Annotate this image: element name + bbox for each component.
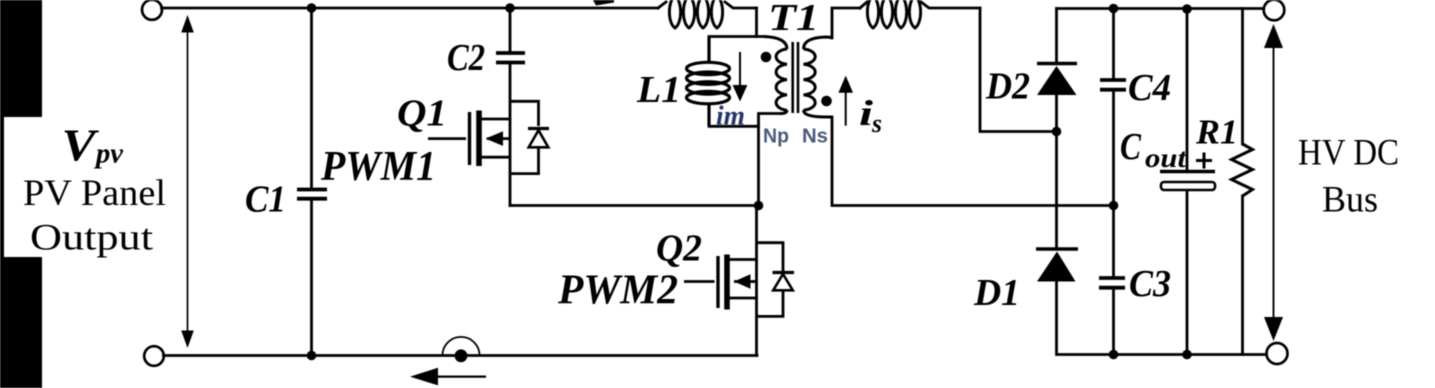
inductor leakage coil secondary (series coil 2) (867, 0, 920, 28)
svg-text:Q1: Q1 (397, 93, 447, 135)
svg-text:C2: C2 (447, 37, 485, 79)
current sensor circle on bottom rail (442, 337, 479, 356)
svg-text:Output: Output (30, 218, 154, 259)
terminal top-right (1264, 0, 1285, 20)
capacitor C4 (1100, 80, 1126, 90)
junction dot C4 top rail (1109, 4, 1119, 14)
Q1 source stub (481, 156, 510, 159)
Q2 drain stub (729, 258, 757, 261)
Q2 gate lead (684, 280, 715, 283)
Q1 right conductor (509, 119, 512, 157)
Q2 body diode triangle (773, 274, 793, 290)
HV DC measurement arrow (1264, 24, 1283, 341)
wire C2 to Q1 drain (509, 65, 512, 120)
svg-text:PV Panel: PV Panel (23, 173, 166, 214)
capacitor Cout electrolytic (1160, 172, 1215, 191)
wire coil1 leads (658, 2, 757, 8)
svg-text:C3: C3 (1129, 263, 1171, 305)
junction dot C1 top (307, 3, 317, 13)
terminal top-left (142, 0, 162, 20)
svg-text:PWM2: PWM2 (557, 268, 678, 314)
wire node to D1 (1055, 132, 1058, 248)
black margin bar lower-left (0, 257, 42, 388)
svg-text:Bus: Bus (1322, 180, 1378, 221)
Q1 body diode bar (528, 127, 549, 130)
Q2 gate bar (716, 256, 719, 308)
wire C1 branch upper (310, 8, 313, 188)
Q2 body diode branch (757, 243, 795, 317)
diode D1 (1036, 249, 1078, 282)
Q1 drain stub (481, 118, 510, 121)
arrowhead on top wire (cropped) (593, 0, 614, 6)
svg-text:PWM1: PWM1 (320, 144, 436, 190)
Q1 body stub (487, 137, 510, 140)
transformer polarity dot secondary (821, 96, 832, 107)
svg-text:C1: C1 (245, 179, 286, 221)
wire D2 to node (1055, 95, 1058, 132)
Q2 body diode bar (773, 271, 795, 274)
junction dot C3 bottom rail (1109, 350, 1119, 360)
junction dot secondary return / cap node (1109, 201, 1119, 211)
capacitor C3 (1099, 278, 1125, 288)
wire R1 leg (1241, 9, 1244, 355)
Q1 body diode triangle (529, 130, 549, 147)
mosfet Q2 (684, 255, 757, 310)
svg-text:pv: pv (94, 139, 124, 170)
svg-text:Q2: Q2 (656, 228, 702, 270)
junction dot Cout top rail (1182, 4, 1192, 14)
svg-text:C: C (1120, 126, 1142, 168)
Cout plus sign (1196, 153, 1212, 169)
junction dot mid node (754, 201, 764, 211)
wire top rail right (1057, 7, 1264, 10)
Q2 channel bar (724, 255, 730, 310)
Vpv measurement arrow (181, 15, 194, 348)
wire primary bottom lead (759, 114, 781, 206)
svg-text:R1: R1 (1195, 113, 1238, 152)
resistor R1 (1232, 144, 1253, 196)
svg-text:Ns: Ns (802, 125, 828, 148)
transformer T1 primary winding (764, 37, 787, 114)
junction dot secondary hot / diode node (1052, 127, 1062, 137)
Q1 body arrow (486, 131, 504, 146)
wire coil2 leads (860, 2, 980, 8)
wire C2 branch upper (509, 8, 512, 51)
Q2 right conductor (755, 260, 758, 299)
terminal bottom-right (1267, 343, 1288, 364)
Q2 source stub (729, 297, 757, 300)
terminal bottom-left (144, 346, 164, 366)
junction dot C2 top (505, 3, 515, 13)
svg-text:out: out (1145, 143, 1188, 173)
junction dot C1 bottom (307, 351, 317, 361)
transformer polarity dot primary (761, 52, 772, 63)
transformer T1 secondary winding (804, 37, 833, 117)
wire C1 branch lower (310, 201, 313, 356)
svg-text:L1: L1 (636, 69, 681, 111)
svg-text:D1: D1 (973, 272, 1020, 314)
inductor leakage coil primary (series coil 1) (669, 0, 722, 28)
current direction arrow bottom (410, 368, 486, 386)
Q1 gate bar (468, 112, 471, 165)
wire D1 to bottom rail (1057, 282, 1267, 355)
capacitor C1 (297, 190, 327, 199)
wire C4 C3 leg (1112, 9, 1115, 355)
wire bottom rail left (164, 354, 758, 357)
current sensor dot (455, 349, 468, 362)
black margin bar upper-left (0, 0, 42, 117)
is current arrow (838, 76, 853, 126)
black margin strip mid-left (0, 117, 4, 257)
wire L1 top node (709, 35, 764, 38)
wire mid node horizontal (Q1 source to Q2 drain) (510, 204, 759, 207)
wire secondary hot descent (980, 8, 1057, 132)
im current arrow (733, 52, 748, 102)
Q1 channel bar (476, 111, 482, 167)
svg-text:D2: D2 (985, 66, 1030, 108)
wire Q2 drain up (755, 206, 758, 260)
mosfet Q1 (428, 111, 510, 167)
wire top rail left (162, 7, 659, 10)
wire L1 bottom node (709, 125, 759, 128)
svg-text:V: V (62, 121, 101, 171)
capacitor C2 (496, 53, 525, 63)
wire primary top lead vertical (755, 8, 758, 37)
svg-text:i: i (859, 93, 873, 133)
svg-text:im: im (716, 101, 745, 131)
junction dot Cout bottom rail (1182, 350, 1192, 360)
svg-text:s: s (871, 109, 882, 138)
transformer T1 core (793, 42, 798, 113)
wire secondary top lead (832, 8, 860, 38)
svg-text:HV DC: HV DC (1298, 133, 1399, 174)
svg-text:Np: Np (763, 125, 789, 148)
wire Cout leg (1186, 9, 1189, 355)
Q2 body stub (734, 280, 757, 283)
wire Q1 source down (509, 157, 512, 205)
Q1 body diode branch (510, 101, 549, 173)
wire Q2 source down (755, 298, 758, 356)
Q2 body arrow (734, 274, 751, 289)
diode D2 (1037, 64, 1077, 96)
wire diode leg upper (rail corner to D2) (1055, 9, 1058, 62)
wire secondary return (832, 117, 1114, 206)
Q1 gate lead (428, 137, 466, 140)
inductor L1 magnetizing (687, 37, 730, 127)
svg-text:T1: T1 (768, 0, 819, 39)
svg-text:C4: C4 (1128, 67, 1171, 109)
